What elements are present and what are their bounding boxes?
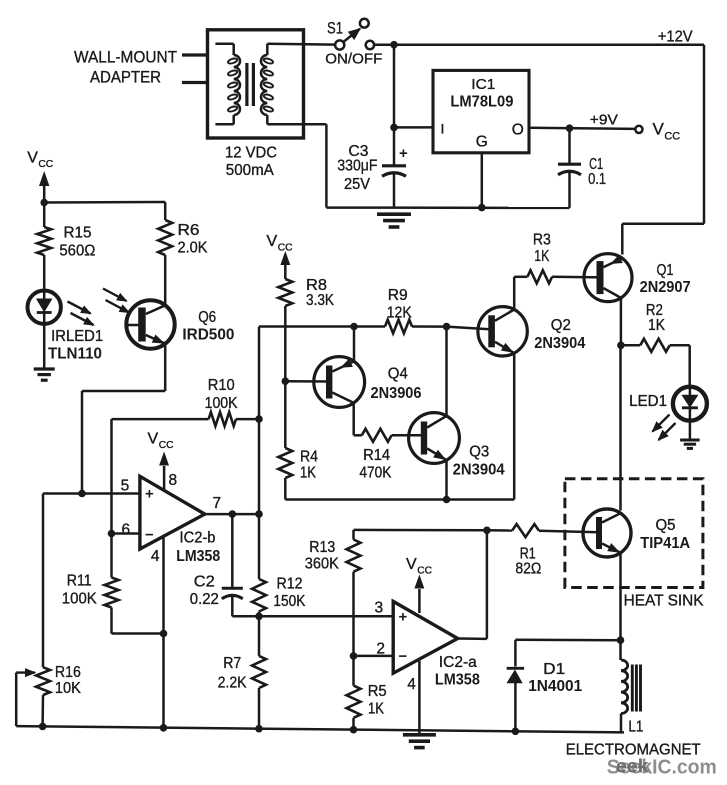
svg-text:3.3K: 3.3K [306, 292, 334, 309]
svg-text:ADAPTER: ADAPTER [90, 68, 161, 87]
svg-text:5: 5 [121, 478, 130, 495]
svg-text:IC1: IC1 [471, 76, 495, 93]
svg-text:Q3: Q3 [469, 444, 489, 461]
svg-text:L1: L1 [628, 719, 643, 736]
svg-text:V: V [406, 556, 417, 573]
svg-text:8: 8 [169, 472, 178, 489]
svg-text:4: 4 [407, 676, 416, 693]
svg-text:+: + [399, 145, 408, 162]
svg-text:Q5: Q5 [656, 517, 676, 534]
svg-text:2.2K: 2.2K [218, 675, 247, 692]
svg-text:R3: R3 [533, 232, 551, 249]
svg-text:7: 7 [213, 495, 222, 512]
svg-text:+: + [145, 486, 154, 503]
svg-text:360K: 360K [305, 556, 339, 573]
svg-text:CC: CC [664, 130, 680, 142]
svg-text:R6: R6 [178, 222, 200, 239]
svg-text:1K: 1K [648, 317, 665, 334]
svg-text:V: V [267, 233, 278, 250]
svg-text:IRD500: IRD500 [182, 327, 234, 344]
svg-text:CC: CC [159, 440, 174, 451]
svg-text:R13: R13 [309, 539, 335, 556]
svg-text:3: 3 [375, 599, 384, 616]
svg-text:CC: CC [38, 159, 53, 170]
svg-text:IC2-b: IC2-b [180, 529, 216, 546]
svg-text:LM78L09: LM78L09 [450, 93, 513, 110]
svg-text:R15: R15 [64, 224, 92, 241]
svg-text:4: 4 [151, 548, 160, 565]
svg-text:TIP41A: TIP41A [640, 535, 690, 552]
svg-text:G: G [476, 134, 488, 151]
svg-text:IRLED1: IRLED1 [51, 328, 103, 345]
svg-text:WALL-MOUNT: WALL-MOUNT [74, 48, 177, 67]
svg-text:500mA: 500mA [226, 162, 274, 179]
svg-text:150K: 150K [273, 593, 305, 610]
svg-text:LED1: LED1 [629, 393, 667, 410]
svg-text:R7: R7 [223, 655, 241, 672]
svg-text:HEAT SINK: HEAT SINK [624, 593, 704, 610]
svg-text:+: + [399, 609, 408, 626]
svg-text:−: − [399, 648, 408, 665]
svg-text:V: V [653, 120, 665, 139]
svg-text:S1: S1 [327, 18, 343, 37]
svg-text:IC2-a: IC2-a [439, 654, 477, 671]
svg-text:82Ω: 82Ω [515, 561, 541, 578]
svg-text:Q6: Q6 [198, 309, 216, 326]
svg-text:ON/OFF: ON/OFF [325, 50, 382, 67]
svg-text:10K: 10K [55, 680, 81, 697]
svg-text:6: 6 [122, 522, 131, 539]
svg-text:560Ω: 560Ω [59, 243, 95, 260]
svg-text:D1: D1 [543, 661, 565, 678]
svg-text:R12: R12 [277, 576, 303, 593]
svg-text:V: V [27, 149, 38, 166]
svg-text:0.22: 0.22 [190, 591, 219, 608]
svg-text:R9: R9 [388, 287, 408, 304]
svg-text:100K: 100K [205, 395, 238, 412]
svg-text:R11: R11 [67, 573, 92, 590]
svg-text:2.0K: 2.0K [178, 240, 208, 257]
svg-text:100K: 100K [62, 591, 97, 608]
svg-text:eek: eek [616, 756, 649, 778]
svg-text:V: V [148, 431, 159, 448]
svg-text:12 VDC: 12 VDC [225, 145, 277, 162]
svg-text:R5: R5 [368, 683, 387, 700]
svg-text:LM358: LM358 [435, 671, 480, 688]
svg-text:2N3906: 2N3906 [371, 385, 422, 402]
svg-text:TLN110: TLN110 [48, 346, 102, 363]
svg-text:0.1: 0.1 [588, 171, 606, 188]
svg-text:R4: R4 [300, 448, 318, 465]
svg-text:2N3904: 2N3904 [453, 462, 505, 479]
svg-text:I: I [441, 121, 445, 137]
svg-text:+9V: +9V [590, 111, 618, 128]
svg-text:R14: R14 [363, 447, 390, 464]
svg-text:O: O [512, 121, 524, 138]
svg-text:Q2: Q2 [551, 317, 571, 334]
svg-text:+12V: +12V [658, 28, 693, 45]
svg-text:C2: C2 [194, 574, 215, 591]
svg-text:12K: 12K [387, 304, 412, 321]
svg-text:−: − [145, 527, 154, 544]
svg-text:1N4001: 1N4001 [528, 678, 582, 695]
svg-text:LM358: LM358 [176, 548, 220, 565]
svg-text:2N3904: 2N3904 [534, 335, 585, 352]
svg-text:R10: R10 [208, 377, 235, 394]
svg-text:1K: 1K [368, 701, 384, 718]
svg-text:470K: 470K [359, 464, 391, 481]
svg-text:2N2907: 2N2907 [640, 279, 691, 296]
svg-text:330μF: 330μF [337, 158, 377, 175]
svg-text:1K: 1K [300, 464, 316, 481]
svg-text:Q4: Q4 [388, 365, 408, 382]
svg-text:25V: 25V [344, 176, 370, 193]
svg-text:1K: 1K [534, 248, 549, 265]
svg-text:Q1: Q1 [657, 262, 674, 279]
svg-text:R16: R16 [55, 664, 81, 681]
